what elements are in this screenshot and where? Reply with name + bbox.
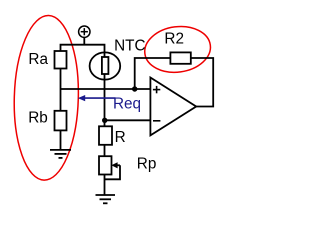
svg-text:Rb: Rb [28,109,48,126]
wire: wiper return to Rp bottom [105,165,121,179]
wire: R2 right to op-amp output [191,58,213,107]
node B junction dot [102,118,107,123]
wire: Rb bottom to ground [60,130,62,150]
wire: top rail [61,45,105,57]
svg-text:Rp: Rp [137,155,157,172]
ground (bottom, below Rp) [96,195,116,203]
svg-text:Req: Req [113,96,141,113]
wire: feedback tap node A up to R2 left [135,58,171,89]
blue arrow pointing to Req node [78,95,116,101]
wire: NTC bottom to node B and R top [104,74,106,126]
ground (left, below Rb) [50,150,71,158]
resistor Ra [55,51,67,69]
node A junction dot [132,86,137,91]
svg-text:NTC: NTC [114,37,145,54]
red highlight ellipse around Ra/Rb divider [12,15,81,181]
op-amp U1 [150,78,196,136]
wire: Ra bottom to Rb top (node A vertical) [60,69,62,111]
potentiometer Rp [99,156,112,174]
wire: non-inverting input (node A to op-amp +) [61,88,151,90]
resistor Rb [55,111,67,131]
power supply + terminal [79,26,90,45]
svg-text:Ra: Ra [28,51,48,68]
wire: Rp bottom to ground [104,175,106,196]
wire: inverting input (node B to op-amp -) [105,119,151,121]
red highlight ellipse around R2 [142,23,213,77]
svg-text:R2: R2 [164,30,184,47]
wire: R bottom to Rp top [104,145,106,156]
resistor R [99,126,112,145]
resistor R2 [170,52,190,63]
svg-text:R: R [115,129,126,146]
thermistor NTC [90,37,146,79]
potentiometer wiper arrow [111,162,120,168]
